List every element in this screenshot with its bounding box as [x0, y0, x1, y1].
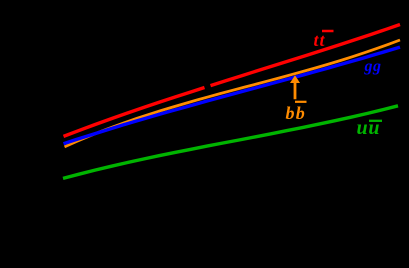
svg-text:gg: gg: [364, 58, 382, 75]
svg-text:tt: tt: [314, 30, 326, 50]
curve tt (red) segment 1: [64, 88, 205, 137]
curve gg (blue): [64, 47, 401, 144]
svg-text:bb: bb: [286, 103, 306, 123]
arrow from bb label to orange curve: [290, 75, 300, 99]
overbar of t (red): [322, 30, 334, 33]
curve uu (green): [63, 106, 398, 179]
curve bb (orange): [65, 40, 401, 147]
overbar of u (green): [369, 120, 382, 122]
overbar of b (orange): [295, 101, 307, 103]
curve tt (red) segment 2: [211, 25, 401, 86]
